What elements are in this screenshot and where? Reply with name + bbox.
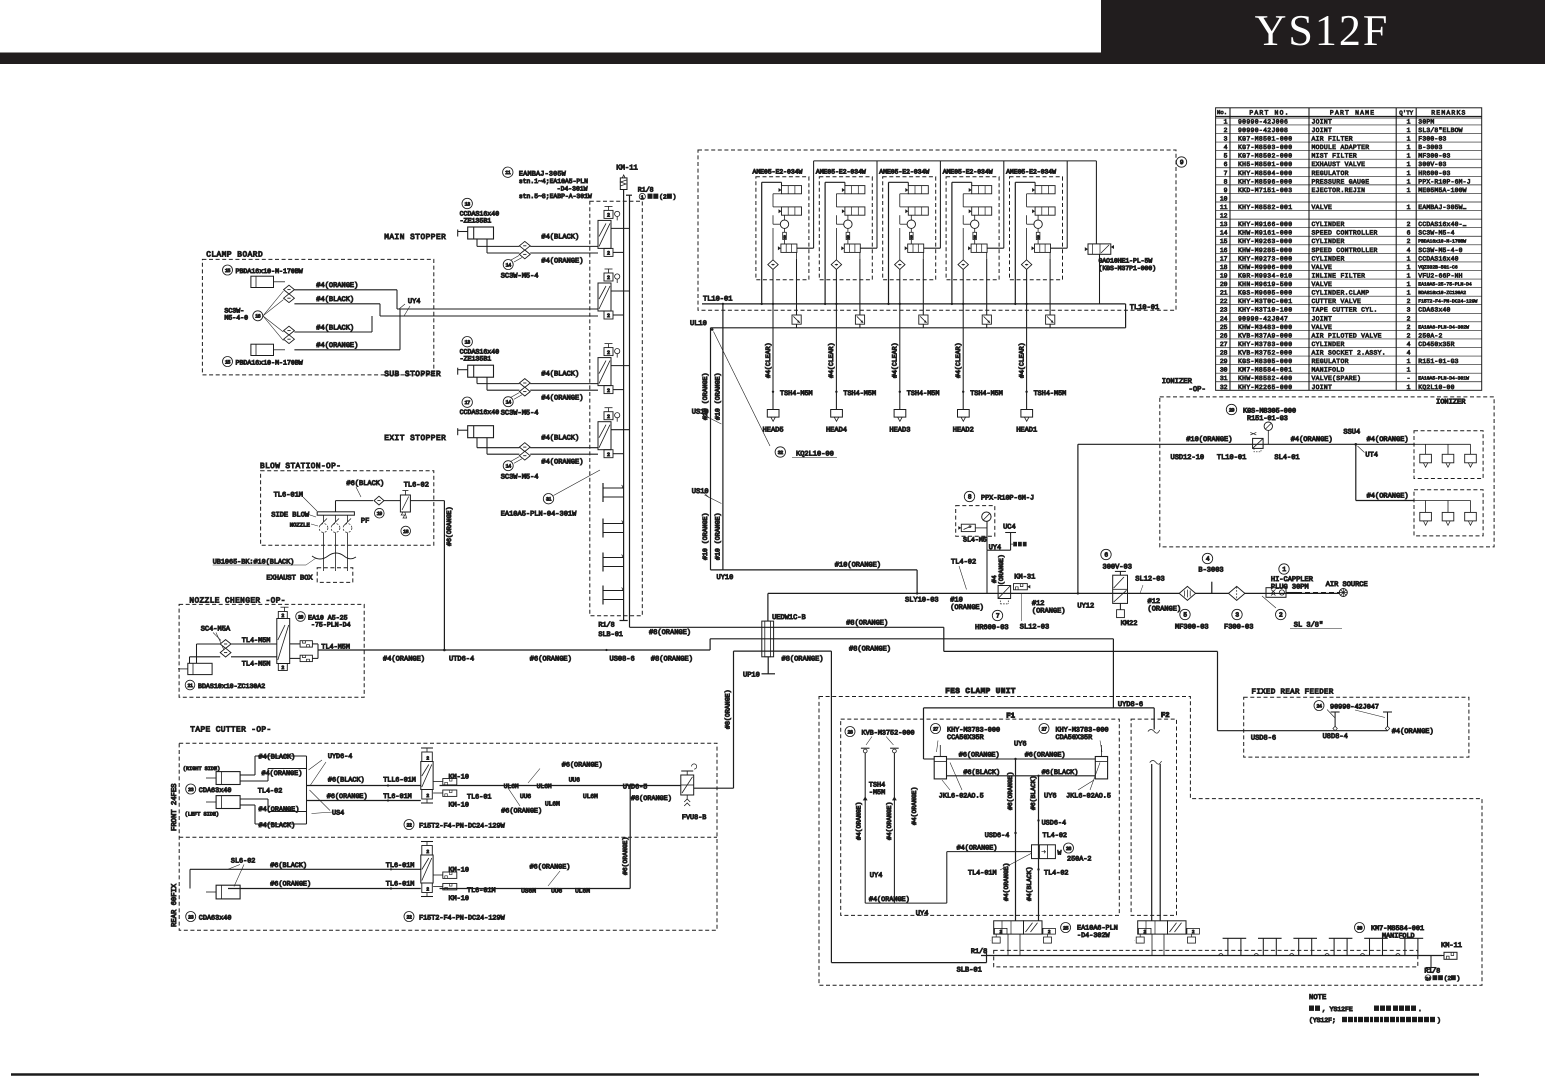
svg-text:5: 5	[1224, 153, 1228, 160]
exhaust valve 6 300V-03	[1032, 549, 1181, 628]
svg-text:BDAS10x10-ZC130A2: BDAS10x10-ZC130A2	[198, 683, 265, 690]
svg-text:7: 7	[1224, 170, 1228, 177]
svg-text:JKL6-02AO.5: JKL6-02AO.5	[1066, 793, 1111, 801]
svg-text:TL4-M5M: TL4-M5M	[242, 637, 271, 645]
svg-text:16: 16	[1220, 247, 1228, 254]
svg-text:HEAD3: HEAD3	[889, 426, 910, 434]
svg-text:27: 27	[933, 726, 939, 732]
wire US10 verticals #10 ORANGE	[692, 303, 724, 570]
svg-text:CCDAS16x40-…: CCDAS16x40-…	[1418, 221, 1466, 228]
svg-text:UTD6-4: UTD6-4	[449, 655, 474, 663]
svg-text:1: 1	[1407, 153, 1411, 160]
svg-text:300V-03: 300V-03	[1418, 161, 1446, 168]
svg-text:1: 1	[1407, 272, 1411, 279]
svg-text:ME05M5A-100W: ME05M5A-100W	[1418, 187, 1466, 194]
bus UYD8-6	[924, 701, 1155, 709]
svg-text:PBDA16x10-M-170BW: PBDA16x10-M-170BW	[1418, 239, 1466, 245]
svg-text:SIDE BLOW: SIDE BLOW	[271, 512, 310, 520]
label 2 SL 3/8	[1262, 596, 1342, 630]
svg-text:31: 31	[546, 497, 552, 503]
svg-text:1: 1	[1407, 170, 1411, 177]
svg-text:TL10-01: TL10-01	[1217, 454, 1246, 462]
svg-text:-M5M: -M5M	[869, 789, 885, 797]
svg-text:3: 3	[1037, 234, 1040, 240]
svg-text:-: -	[1407, 375, 1411, 382]
nozzle changer label	[189, 596, 286, 605]
svg-text:2: 2	[607, 213, 610, 219]
svg-text:BDAS10x10-ZC130A2: BDAS10x10-ZC130A2	[1418, 290, 1466, 296]
svg-text:#4(ORANGE): #4(ORANGE)	[856, 802, 863, 840]
rear cutter cylinder 23	[186, 858, 256, 923]
svg-text:KHY-M8596-000: KHY-M8596-000	[1238, 178, 1292, 185]
svg-text:CDA63x40: CDA63x40	[199, 914, 232, 922]
FES clamp unit label	[945, 687, 1016, 696]
label SLB-01	[598, 631, 622, 639]
svg-text:US6M: US6M	[521, 887, 536, 894]
svg-text:27: 27	[1220, 341, 1228, 348]
svg-text:3: 3	[847, 234, 850, 240]
svg-text:TSH4-M5M: TSH4-M5M	[1034, 390, 1067, 398]
svg-text:#6(ORANGE): #6(ORANGE)	[327, 793, 368, 801]
svg-text:2: 2	[281, 665, 284, 671]
AME05-E2-034W cluster 2	[816, 169, 877, 435]
svg-text:CDA50X35R: CDA50X35R	[1056, 734, 1093, 742]
svg-text:UYD6-5: UYD6-5	[623, 784, 647, 792]
svg-text:8: 8	[1224, 178, 1228, 185]
svg-text:VALVE: VALVE	[1312, 204, 1333, 211]
svg-text:TL4-02: TL4-02	[1044, 870, 1068, 878]
svg-text:KHY-M3783-000: KHY-M3783-000	[1238, 341, 1292, 348]
svg-text:UL6M: UL6M	[537, 783, 552, 790]
svg-text:15: 15	[1220, 238, 1228, 245]
svg-text:KG7-M8503-000: KG7-M8503-000	[1238, 144, 1292, 151]
svg-text:KVB-M3752-000: KVB-M3752-000	[862, 730, 915, 738]
front cutter valve 22 F15T2	[404, 748, 506, 830]
node UY4 UC4	[987, 524, 1027, 594]
svg-text:3: 3	[1407, 307, 1411, 314]
pressure gauge 8 PPX-R10P-6M-J	[956, 491, 1034, 550]
svg-text:AME05-E2-034W: AME05-E2-034W	[1006, 169, 1056, 176]
svg-text:KM-11: KM-11	[616, 165, 638, 173]
svg-text:PART NAME: PART NAME	[1330, 109, 1375, 116]
parts table	[1216, 108, 1482, 391]
svg-text:UL10: UL10	[690, 320, 707, 328]
svg-text:2: 2	[426, 886, 429, 892]
svg-text:SPEED CONTROLLER: SPEED CONTROLLER	[1312, 230, 1378, 237]
svg-text:24: 24	[1316, 703, 1322, 709]
clamp board label	[206, 251, 263, 260]
svg-text:14: 14	[506, 464, 512, 470]
check valve FVU8-B	[681, 764, 734, 822]
svg-text:SL12-03: SL12-03	[1135, 575, 1164, 583]
svg-text:KM-11: KM-11	[1441, 942, 1462, 950]
svg-text:(KGS-M37P1-000): (KGS-M37P1-000)	[1099, 265, 1157, 272]
svg-text:#4(BLACK): #4(BLACK)	[259, 754, 296, 762]
svg-text:USD6-4: USD6-4	[985, 832, 1009, 840]
svg-text:SC3W-: SC3W-	[224, 308, 244, 315]
svg-text:1: 1	[1407, 281, 1411, 288]
svg-text:15: 15	[225, 359, 231, 365]
svg-text:#8(ORANGE): #8(ORANGE)	[649, 628, 691, 637]
manifold KM-11 connector top	[616, 165, 638, 190]
svg-text:EAMBAJ-305W…: EAMBAJ-305W…	[1418, 204, 1466, 211]
svg-text:stn.5~8;EABP-A-301W: stn.5~8;EABP-A-301W	[519, 193, 592, 200]
exit stopper cylinder 17	[384, 434, 446, 443]
svg-text:1: 1	[1407, 118, 1411, 125]
svg-text:1: 1	[1407, 204, 1411, 211]
svg-text:17: 17	[1220, 255, 1228, 262]
svg-text:USD8-6: USD8-6	[1251, 735, 1276, 743]
wire SLB-01 #8 ORANGE to feeder	[630, 618, 1218, 730]
svg-text:-OP-: -OP-	[1189, 386, 1206, 394]
svg-text:EA10A5-PLN-D4-301W: EA10A5-PLN-D4-301W	[1418, 376, 1469, 382]
air source symbol	[1326, 581, 1368, 597]
svg-text:UY4: UY4	[408, 298, 421, 306]
svg-text:250A-2: 250A-2	[1067, 856, 1091, 864]
svg-text:30: 30	[1220, 367, 1228, 374]
svg-text:EA10A6-PLN-D4-302W: EA10A6-PLN-D4-302W	[1418, 324, 1469, 330]
svg-text:(RIGHT SIDE): (RIGHT SIDE)	[183, 766, 220, 772]
svg-text:21: 21	[1220, 290, 1228, 297]
svg-text:YS12F: YS12F	[1255, 6, 1390, 55]
svg-text:FVU8-B: FVU8-B	[682, 814, 706, 822]
blow station filter diamond 19	[336, 479, 385, 518]
nozzle changer cylinder 21	[178, 663, 265, 690]
svg-text:F15T2-F4-PN-DC24-129W: F15T2-F4-PN-DC24-129W	[1418, 299, 1477, 305]
svg-text:13: 13	[465, 340, 471, 346]
svg-text:MODULE ADAPTER: MODULE ADAPTER	[1312, 144, 1370, 151]
svg-text:SC3W-M5-4: SC3W-M5-4	[501, 474, 539, 482]
hi coupler 1 PLUG 30PM	[1266, 564, 1339, 598]
svg-text:PART NO.: PART NO.	[1249, 109, 1289, 116]
circle 9	[1176, 157, 1186, 167]
svg-text:23: 23	[1220, 307, 1228, 314]
svg-text:4: 4	[1407, 247, 1411, 254]
svg-text:27: 27	[1041, 726, 1047, 732]
blow station manifold bar and nozzles	[271, 512, 369, 572]
svg-text:SSU4: SSU4	[1343, 429, 1360, 437]
svg-text:KM22: KM22	[1121, 620, 1138, 628]
svg-text:25: 25	[1063, 925, 1069, 931]
SLB-01 bottom bus	[957, 948, 1442, 975]
svg-text:(ORANGE): (ORANGE)	[1032, 606, 1066, 615]
ionizer section label	[1162, 378, 1206, 394]
svg-text:NOTE: NOTE	[1309, 994, 1326, 1002]
ionizer unit 2	[1356, 444, 1483, 536]
svg-text:CYLINDER: CYLINDER	[1312, 238, 1345, 245]
svg-text:(2: (2	[1444, 975, 1452, 982]
relief valve GAO10HE1-PL-5W	[1085, 244, 1156, 304]
svg-text:AME05-E2-034W: AME05-E2-034W	[879, 169, 929, 176]
note R1/8 plug bottom right	[1424, 956, 1460, 983]
svg-text:NOZZLE CHENGER -OP-: NOZZLE CHENGER -OP-	[189, 596, 286, 605]
svg-text:-ZE135B1: -ZE135B1	[460, 356, 492, 363]
svg-text:3: 3	[1224, 136, 1228, 143]
svg-text:2: 2	[1192, 930, 1195, 935]
blow station valve TL6-02 18	[384, 482, 444, 536]
svg-text:22: 22	[406, 914, 412, 920]
valve assy 25 EA10A6 F2	[1134, 921, 1199, 956]
svg-text:#6(BLACK): #6(BLACK)	[1042, 769, 1079, 777]
svg-text:SLB-01: SLB-01	[957, 967, 982, 975]
label 25 EA10A6-PLN-D4-302W	[1061, 923, 1118, 941]
svg-text:3: 3	[783, 234, 786, 240]
ionizer unit 1	[1414, 399, 1483, 479]
label 30 KM7-M8584-001 MANIFOLD	[1355, 923, 1425, 941]
svg-text:TAPE CUTTER CYL.: TAPE CUTTER CYL.	[1312, 307, 1378, 314]
svg-text:SC3W-M5-4: SC3W-M5-4	[1418, 230, 1454, 237]
svg-text:2: 2	[607, 350, 610, 356]
nozzle changer wiring	[190, 637, 277, 669]
svg-text:#10(ORANGE): #10(ORANGE)	[1186, 435, 1232, 444]
svg-text:CDA63x40: CDA63x40	[1418, 307, 1450, 314]
svg-text:KHY-M3T0C-001: KHY-M3T0C-001	[1238, 298, 1292, 305]
valve assy 25 EA10A6 F1	[990, 921, 1055, 956]
svg-text:HR600-03: HR600-03	[975, 624, 1009, 632]
svg-text:15: 15	[225, 268, 231, 274]
svg-text:#4(ORANGE): #4(ORANGE)	[1003, 863, 1010, 901]
main stopper cylinder 13	[384, 233, 446, 242]
svg-text:18: 18	[1220, 264, 1228, 271]
svg-text:2: 2	[607, 275, 610, 281]
svg-text:KHY-M9263-000: KHY-M9263-000	[1238, 238, 1292, 245]
svg-text:2: 2	[1407, 238, 1411, 245]
svg-text:B-3003: B-3003	[1198, 567, 1223, 575]
svg-text:#6(ORANGE): #6(ORANGE)	[446, 506, 453, 546]
svg-text:PF: PF	[361, 517, 369, 525]
svg-text:UU6: UU6	[520, 793, 531, 800]
svg-text:2: 2	[999, 930, 1002, 935]
svg-text:VQZ332B-5G1-C6: VQZ332B-5G1-C6	[1418, 264, 1458, 270]
svg-text:INLINE FILTER: INLINE FILTER	[1312, 272, 1366, 279]
svg-text:CLAMP BOARD: CLAMP BOARD	[206, 251, 263, 260]
fixed rear feeder dashed box	[1244, 697, 1469, 757]
svg-text:stn.1~4;EA10A5-PLN: stn.1~4;EA10A5-PLN	[519, 178, 588, 185]
svg-text:PPX-R10P-6M-J: PPX-R10P-6M-J	[1418, 178, 1470, 185]
svg-text:-ZE135B1: -ZE135B1	[460, 218, 492, 225]
F1 wiring orange black	[911, 708, 1111, 921]
svg-text:1: 1	[1407, 358, 1411, 365]
svg-text:#10 (ORANGE): #10 (ORANGE)	[714, 513, 721, 560]
header black bar	[0, 53, 1545, 65]
svg-text:31: 31	[1220, 375, 1228, 382]
svg-text:KM-10: KM-10	[449, 773, 469, 781]
svg-text:#6(ORANGE): #6(ORANGE)	[959, 752, 1000, 760]
svg-text:TL4-M5M: TL4-M5M	[242, 661, 271, 669]
svg-text:FIXED REAR FEEDER: FIXED REAR FEEDER	[1252, 689, 1334, 697]
svg-text:11: 11	[1220, 204, 1228, 211]
manifold valve stn4 exit stopper	[598, 408, 630, 458]
svg-text:32: 32	[778, 450, 784, 456]
svg-text:CYLINDER: CYLINDER	[1312, 341, 1345, 348]
svg-text:NOZZLE: NOZZLE	[290, 522, 311, 529]
svg-text:30PM: 30PM	[1418, 118, 1434, 125]
connector UEDW1C-B	[762, 593, 806, 656]
svg-text:MANIFOLD: MANIFOLD	[1312, 367, 1345, 374]
svg-text:#6(ORANGE): #6(ORANGE)	[530, 654, 572, 663]
svg-text:TSH4-M5M: TSH4-M5M	[970, 390, 1003, 398]
svg-text:UP10: UP10	[743, 672, 760, 680]
svg-text:#6(ORANGE): #6(ORANGE)	[622, 837, 629, 875]
svg-text:2: 2	[1407, 221, 1411, 228]
svg-text:#10 (ORANGE): #10 (ORANGE)	[714, 373, 721, 420]
svg-text:2: 2	[607, 313, 610, 319]
svg-text:US08-6: US08-6	[610, 655, 635, 663]
svg-text:JKL6-02AO.5: JKL6-02AO.5	[939, 793, 984, 801]
svg-text:#6(ORANGE): #6(ORANGE)	[501, 807, 542, 815]
clamp cylinder 15 lower	[223, 344, 303, 366]
svg-text:TL6-01: TL6-01	[467, 794, 491, 802]
svg-text:KHW-M3483-000: KHW-M3483-000	[1238, 324, 1292, 331]
front cutter cylinders 23 CDA63x40	[183, 766, 282, 818]
svg-text:1: 1	[1407, 384, 1411, 391]
svg-text:UEDW1C-B: UEDW1C-B	[772, 614, 806, 622]
svg-text:TL6-01M: TL6-01M	[274, 491, 303, 499]
svg-text:MAIN STOPPER: MAIN STOPPER	[384, 233, 446, 242]
blow station label	[260, 462, 341, 471]
node UY4 clamp	[399, 298, 421, 316]
svg-text:KHY-M2265-000: KHY-M2265-000	[1238, 384, 1292, 391]
svg-text:20: 20	[1220, 281, 1228, 288]
front cutter bus lines	[307, 776, 421, 801]
svg-text:1: 1	[1407, 367, 1411, 374]
svg-text:-D4-301W: -D4-301W	[557, 186, 588, 193]
mist filter 5 MF300-03	[1175, 586, 1209, 631]
svg-text:1: 1	[1407, 127, 1411, 134]
svg-text:KGR-M9934-010: KGR-M9934-010	[1238, 272, 1292, 279]
svg-text:UL6M: UL6M	[575, 887, 590, 894]
svg-text:1: 1	[1407, 178, 1411, 185]
svg-text:KQ2L10-00: KQ2L10-00	[796, 450, 834, 458]
FES clamp unit outer dashed boundary	[819, 697, 1482, 986]
svg-text:2: 2	[1407, 324, 1411, 331]
svg-text:JOINT: JOINT	[1312, 315, 1333, 322]
svg-text:UY12: UY12	[1077, 602, 1094, 610]
svg-text:#8(ORANGE): #8(ORANGE)	[849, 645, 891, 654]
svg-text:UY6: UY6	[1044, 793, 1057, 801]
svg-text:2: 2	[607, 251, 610, 257]
note valve 11 EAMBAJ-305W	[503, 167, 592, 200]
rear cutter bus lines	[190, 862, 421, 890]
svg-text:.: .	[1418, 1006, 1422, 1013]
AME05-E2-034W cluster 1	[753, 169, 814, 435]
svg-text:UL6M: UL6M	[504, 783, 519, 790]
connector KM-11 bottom	[1441, 942, 1462, 959]
svg-text:HEAD5: HEAD5	[763, 426, 784, 434]
head valve bank dashed box 9	[698, 150, 1176, 310]
svg-text:EA10A5-PLN-04-301W: EA10A5-PLN-04-301W	[501, 511, 577, 519]
sub stopper cylinder 13	[384, 370, 441, 379]
svg-text:HEAD4: HEAD4	[826, 426, 847, 434]
svg-text:(ORANGE): (ORANGE)	[1148, 604, 1182, 613]
svg-text:24: 24	[1220, 315, 1228, 322]
svg-text:30: 30	[1357, 925, 1363, 931]
rear cutter output to UYD6-5 riser	[440, 786, 631, 895]
svg-text:MANIFOLD: MANIFOLD	[1382, 933, 1415, 941]
svg-text:10: 10	[1220, 195, 1228, 202]
svg-text:#4: #4	[991, 575, 998, 583]
svg-text:R1/8: R1/8	[1424, 968, 1440, 975]
label SL12-03 left	[1020, 593, 1049, 631]
svg-text:TL4-01M: TL4-01M	[968, 870, 997, 878]
svg-text:PBDA16x10-M-170BW: PBDA16x10-M-170BW	[236, 359, 303, 366]
svg-text:#4(ORANGE): #4(ORANGE)	[886, 802, 893, 840]
svg-text:F1: F1	[1006, 713, 1015, 721]
ionizer regulator 29 R151-01-G3	[1226, 404, 1296, 452]
svg-text:AME05-E2-034W: AME05-E2-034W	[943, 169, 993, 176]
svg-text:3: 3	[973, 234, 976, 240]
title text YS12F	[1255, 6, 1390, 55]
svg-text:2: 2	[1048, 930, 1051, 935]
svg-text:(2: (2	[659, 194, 667, 201]
note text bottom	[1309, 994, 1441, 1024]
svg-text:28: 28	[847, 729, 853, 735]
svg-text:2: 2	[607, 452, 610, 458]
svg-text:KVB-M37A9-000: KVB-M37A9-000	[1238, 332, 1292, 339]
svg-text:SL4-M5: SL4-M5	[963, 537, 987, 544]
port UP10	[743, 657, 775, 680]
air piloted valve 26 250A-2	[1032, 843, 1092, 864]
svg-text:KM-10: KM-10	[449, 867, 469, 875]
svg-text:2: 2	[607, 388, 610, 394]
exhaust hose UB1065-BK	[213, 553, 356, 566]
svg-text:26: 26	[1066, 846, 1072, 852]
svg-text:KHY-M8582-001: KHY-M8582-001	[1238, 204, 1292, 211]
svg-text:1: 1	[1407, 136, 1411, 143]
svg-text:Q'TY: Q'TY	[1399, 109, 1413, 116]
svg-text:KHY-M9273-000: KHY-M9273-000	[1238, 255, 1292, 262]
wire tape cutter riser to SLB manifold	[725, 651, 987, 963]
svg-text:#4(CLEAR): #4(CLEAR)	[828, 342, 835, 378]
svg-text:TL6-01M: TL6-01M	[386, 880, 415, 888]
svg-text:KHN-M9619-500: KHN-M9619-500	[1238, 281, 1292, 288]
svg-text:#6(ORANGE): #6(ORANGE)	[562, 762, 603, 770]
svg-text:#4(ORANGE): #4(ORANGE)	[316, 281, 358, 290]
svg-text:UY6: UY6	[1014, 741, 1027, 749]
clamp cylinder 15 upper	[223, 265, 303, 288]
svg-text:GAO10HE1-PL-5W: GAO10HE1-PL-5W	[1099, 258, 1153, 265]
svg-text:4: 4	[1224, 144, 1228, 151]
front cutter linkage wiring	[240, 753, 352, 830]
svg-text:#4(ORANGE): #4(ORANGE)	[259, 806, 300, 814]
svg-text:2: 2	[1143, 930, 1146, 935]
svg-text:HEAD1: HEAD1	[1016, 426, 1037, 434]
main line mid segment	[996, 592, 1339, 610]
node SSU4	[1343, 429, 1378, 460]
manifold valve stn2 clamp board	[598, 269, 630, 319]
svg-text:R1/8: R1/8	[638, 187, 654, 194]
module adapter 4 B-3003	[1198, 553, 1223, 593]
svg-text:25: 25	[1220, 324, 1228, 331]
bus TL10-01	[702, 296, 1159, 312]
svg-text:CCDAS16x40: CCDAS16x40	[460, 409, 500, 416]
svg-text:-75-PLN-D4: -75-PLN-D4	[311, 622, 351, 629]
svg-text:EXIT STOPPER: EXIT STOPPER	[384, 434, 446, 443]
svg-text:#4(ORANGE): #4(ORANGE)	[1367, 492, 1409, 501]
svg-text:#4(CLEAR): #4(CLEAR)	[892, 342, 899, 378]
svg-text:(YS12F;: (YS12F;	[1309, 1017, 1336, 1024]
svg-text:32: 32	[1220, 384, 1228, 391]
ionizer unit1 internal bus	[1415, 443, 1471, 445]
svg-text:19: 19	[377, 511, 383, 517]
svg-text:VFU2-66P-NH: VFU2-66P-NH	[1418, 272, 1462, 279]
svg-text:2: 2	[1407, 298, 1411, 305]
svg-text:SC3W-M5-4: SC3W-M5-4	[501, 410, 539, 418]
svg-text:21: 21	[187, 683, 193, 689]
svg-text:M5-4-0: M5-4-0	[224, 315, 248, 322]
svg-text:MIST FILTER: MIST FILTER	[1312, 153, 1358, 160]
svg-text:EJECTOR.REJIN: EJECTOR.REJIN	[1312, 187, 1366, 194]
